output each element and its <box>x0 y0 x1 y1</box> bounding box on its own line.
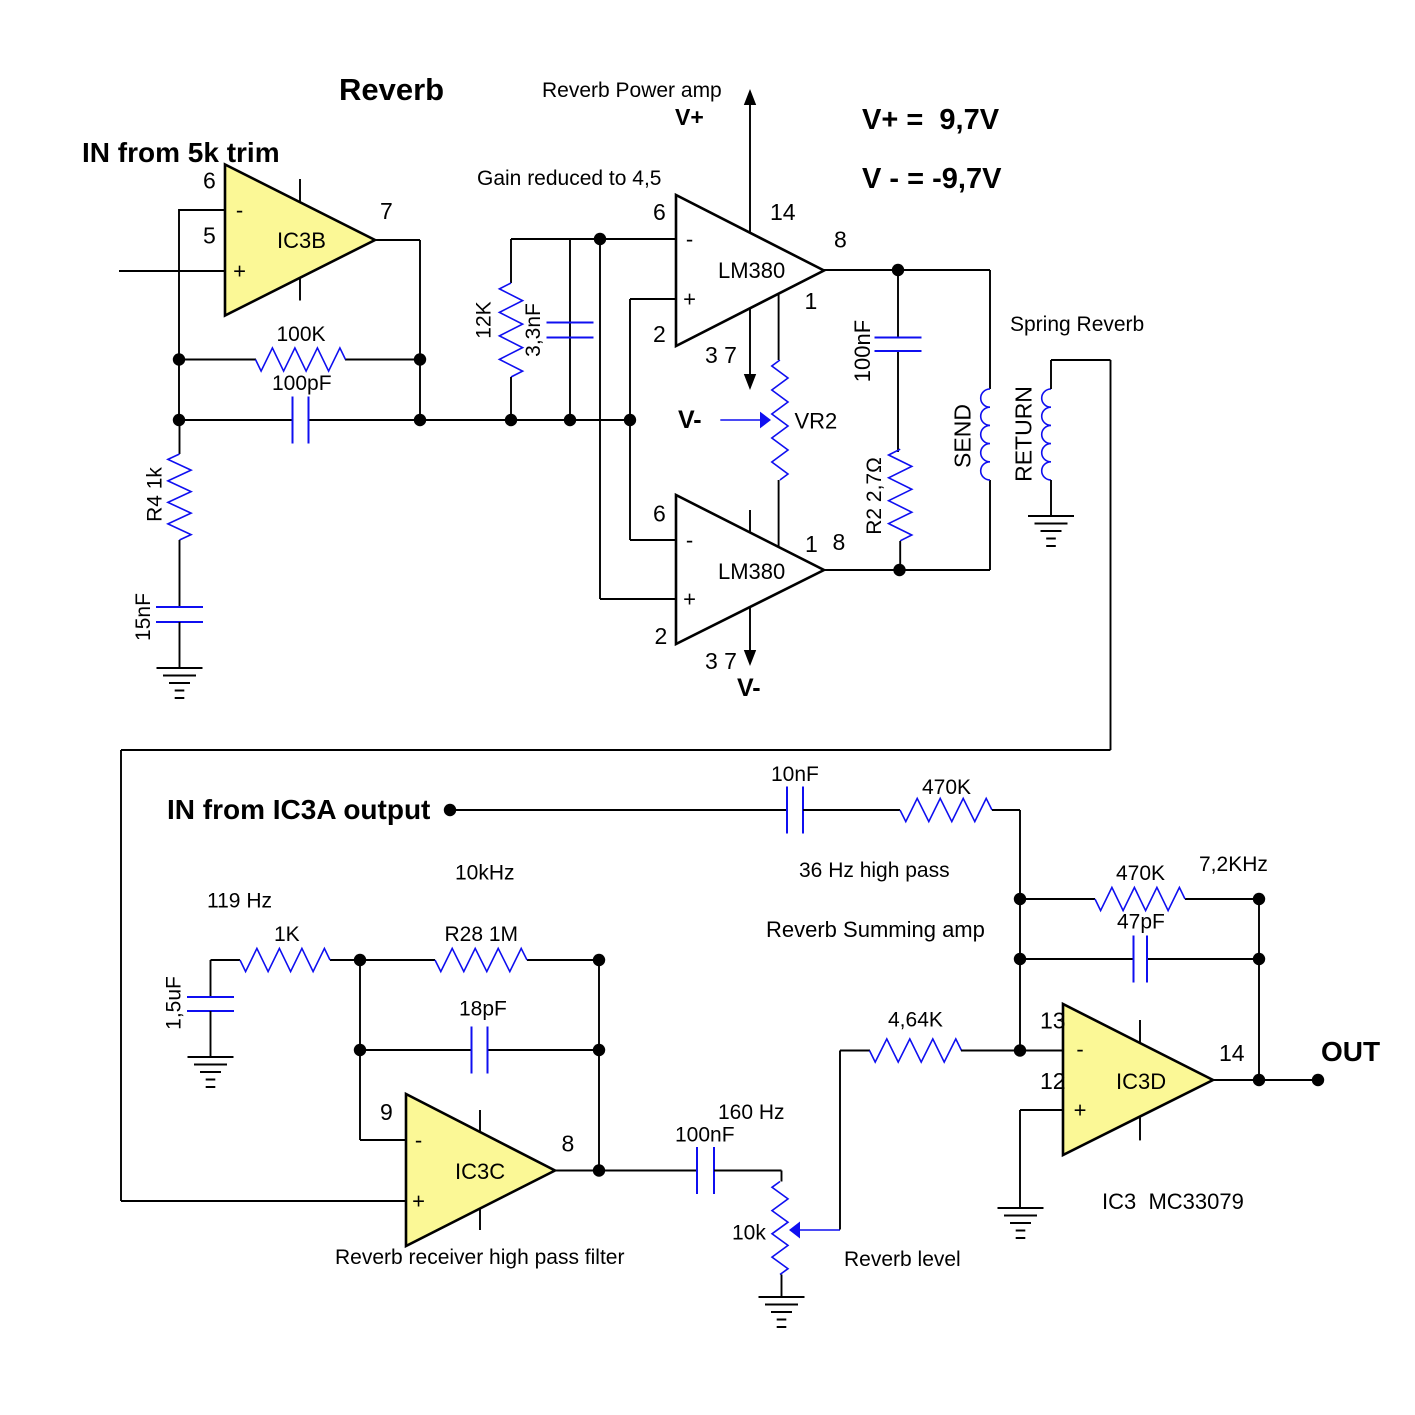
node junction dots bottom <box>354 893 1324 1177</box>
svg-text:18pF: 18pF <box>459 998 507 1021</box>
wire 100pF bus row <box>179 419 630 421</box>
V- power arrow lower <box>744 607 756 667</box>
svg-text:8: 8 <box>833 529 846 555</box>
IC3C pin numbers <box>380 1099 574 1157</box>
op-amp IC3B <box>225 165 375 316</box>
svg-text:100pF: 100pF <box>272 372 332 395</box>
svg-text:10nF: 10nF <box>771 763 819 786</box>
V- power arrow upper <box>744 309 756 391</box>
svg-text:V - = -9,7V: V - = -9,7V <box>862 163 1002 195</box>
svg-text:VR2: VR2 <box>795 409 838 434</box>
wire RETURN to ground <box>1050 480 1052 516</box>
svg-text:470K: 470K <box>1116 862 1165 885</box>
svg-text:LM380: LM380 <box>718 559 785 584</box>
wire 15nF to ground <box>179 622 181 668</box>
ground under 15nF <box>157 668 203 698</box>
wire LM380-2 output row <box>824 569 990 571</box>
svg-text:V+ = 9,7V: V+ = 9,7V <box>862 104 1000 136</box>
svg-text:4,64K: 4,64K <box>888 1009 943 1032</box>
node junction dots top <box>173 233 906 576</box>
svg-text:3 7: 3 7 <box>705 342 737 368</box>
wire IC3B noninverting input <box>119 270 225 272</box>
resistor R2 2,7ohm <box>889 449 912 541</box>
svg-text:Reverb level: Reverb level <box>844 1248 961 1271</box>
wire 12K top <box>510 239 512 283</box>
wire long horizontal <box>121 749 1111 751</box>
wire R4 top <box>179 420 181 454</box>
svg-text:IC3 MC33079: IC3 MC33079 <box>1102 1189 1244 1214</box>
svg-text:100nF: 100nF <box>675 1124 735 1147</box>
capacitor 100nF reverb <box>697 1147 714 1194</box>
svg-text:LM380: LM380 <box>718 258 785 283</box>
svg-text:6: 6 <box>653 501 666 527</box>
svg-text:12: 12 <box>1040 1068 1066 1094</box>
wire 100nF to 10k <box>714 1171 782 1182</box>
svg-text:-: - <box>415 1127 422 1152</box>
resistor R4 1k <box>168 454 191 540</box>
svg-text:IN from 5k trim: IN from 5k trim <box>82 137 280 168</box>
ground under IC3D <box>998 1208 1044 1238</box>
V+ power arrow <box>744 89 756 233</box>
svg-text:+: + <box>683 587 696 612</box>
wire SEND column <box>989 270 991 570</box>
wire 3,3nF stubs <box>569 239 571 420</box>
wire wiper to 4,64K <box>840 1051 870 1230</box>
capacitor 15nF <box>156 607 203 622</box>
svg-text:7,2KHz: 7,2KHz <box>1199 853 1268 876</box>
wire R2 bottom <box>899 541 901 570</box>
svg-text:+: + <box>683 287 696 312</box>
wire 1,5uF top <box>210 960 212 997</box>
resistor 12K <box>499 283 522 377</box>
svg-text:470K: 470K <box>922 776 971 799</box>
svg-text:5: 5 <box>203 223 216 249</box>
wire left vertical to IC3C noninverting <box>121 750 406 1201</box>
svg-text:6: 6 <box>653 199 666 225</box>
svg-text:1K: 1K <box>274 923 300 946</box>
svg-text:-: - <box>1076 1036 1083 1061</box>
resistor 100K <box>256 348 346 371</box>
wire 10nF to 470K <box>803 809 900 811</box>
op-amp IC3D <box>1063 1004 1213 1155</box>
wire 470K to corner <box>992 810 1020 1051</box>
svg-text:IC3C: IC3C <box>455 1159 505 1184</box>
wire left vertical to IC3C inverting <box>360 960 406 1140</box>
wire 100K row <box>179 359 420 361</box>
svg-text:IN from IC3A output: IN from IC3A output <box>167 794 430 825</box>
svg-text:+: + <box>412 1189 425 1214</box>
wire 1K row <box>211 959 600 961</box>
capacitor 3,3nF <box>547 323 594 338</box>
svg-text:Reverb: Reverb <box>339 72 444 107</box>
capacitor 18pF <box>472 1027 488 1074</box>
node IN from IC3A <box>444 804 456 816</box>
svg-text:15nF: 15nF <box>132 593 155 641</box>
svg-text:V+: V+ <box>675 104 704 130</box>
wire IC3B inverting input <box>179 209 225 211</box>
resistor R28 1M <box>435 948 527 971</box>
svg-text:2: 2 <box>655 623 668 649</box>
svg-text:SEND: SEND <box>950 404 976 468</box>
IC3D pin numbers <box>1040 1008 1245 1095</box>
wire R4 to 15nF <box>179 540 181 607</box>
svg-text:+: + <box>1074 1098 1087 1123</box>
svg-text:7: 7 <box>380 198 393 224</box>
svg-text:IC3D: IC3D <box>1116 1069 1166 1094</box>
svg-text:14: 14 <box>1219 1040 1245 1066</box>
svg-text:2: 2 <box>653 321 666 347</box>
svg-text:6: 6 <box>203 168 216 194</box>
svg-text:8: 8 <box>562 1131 575 1157</box>
wire IC3D output <box>1213 1079 1318 1081</box>
wire IC3C output row <box>555 1170 697 1172</box>
ground under 1,5uF <box>188 1057 234 1087</box>
svg-text:R28 1M: R28 1M <box>445 923 519 946</box>
svg-text:14: 14 <box>770 199 796 225</box>
svg-text:IC3B: IC3B <box>277 228 326 253</box>
svg-text:119 Hz: 119 Hz <box>207 890 272 913</box>
wire node to LM380-2 noninverting <box>600 239 676 599</box>
svg-text:R2 2,7Ω: R2 2,7Ω <box>863 457 886 535</box>
svg-text:RETURN: RETURN <box>1011 386 1037 482</box>
svg-text:Reverb receiver high pass filt: Reverb receiver high pass filter <box>335 1246 624 1269</box>
wire IC3D noninverting <box>1020 1110 1063 1208</box>
capacitor 1,5uF <box>187 997 234 1011</box>
svg-text:-: - <box>686 527 693 552</box>
svg-text:R4 1k: R4 1k <box>143 467 166 522</box>
wire feedback right vertical <box>1258 899 1260 1080</box>
wire 12K bottom <box>510 377 512 420</box>
wire 10k to ground <box>781 1275 783 1298</box>
IC3B pin numbers <box>203 168 393 249</box>
svg-text:10k: 10k <box>732 1222 766 1245</box>
svg-text:36 Hz high pass: 36 Hz high pass <box>799 859 950 882</box>
resistor 470K input <box>900 798 992 821</box>
LM380 lower pin numbers <box>653 501 845 675</box>
VR2 wiper arrow <box>720 412 771 429</box>
op-amp IC3C <box>406 1094 555 1246</box>
wire RETURN top <box>1051 360 1111 389</box>
svg-text:-: - <box>236 197 243 222</box>
svg-text:3,3nF: 3,3nF <box>522 303 545 357</box>
svg-text:1: 1 <box>805 531 818 557</box>
svg-text:13: 13 <box>1040 1008 1066 1034</box>
svg-text:100nF: 100nF <box>850 320 875 382</box>
svg-text:160 Hz: 160 Hz <box>718 1101 785 1124</box>
capacitor 47pF <box>1134 936 1148 983</box>
svg-text:10kHz: 10kHz <box>455 862 515 885</box>
svg-text:12K: 12K <box>473 301 496 338</box>
wire VR2 to LM380-2 pin1 <box>778 480 780 548</box>
svg-text:V-: V- <box>737 674 761 702</box>
op-amp LM380 upper <box>676 195 824 346</box>
inductor RETURN <box>1042 389 1051 480</box>
potentiometer 10k <box>772 1182 788 1275</box>
resistor 1K <box>240 948 330 971</box>
wire right vertical to IC3C output <box>598 960 600 1171</box>
svg-text:1,5uF: 1,5uF <box>162 976 185 1030</box>
wire 18pF row <box>360 1049 599 1051</box>
LM380 upper pin numbers <box>653 199 847 368</box>
resistor 4,64K <box>870 1039 962 1062</box>
ground under 10k <box>759 1297 805 1327</box>
resistor 470K feedback <box>1095 887 1185 910</box>
svg-text:47pF: 47pF <box>1117 911 1165 934</box>
svg-text:Reverb Power amp: Reverb Power amp <box>542 79 722 102</box>
svg-text:3 7: 3 7 <box>705 648 737 674</box>
wire LM380-1 output row <box>824 269 990 271</box>
wire 47pF row <box>1020 958 1259 960</box>
svg-text:1: 1 <box>805 288 818 314</box>
svg-text:OUT: OUT <box>1321 1036 1380 1067</box>
op-amp LM380 lower <box>676 495 824 644</box>
wire top row to LM380 inverting <box>511 238 676 240</box>
wire 470K feedback row <box>1020 898 1259 900</box>
potentiometer VR2 <box>772 360 788 480</box>
capacitor 10nF <box>787 787 803 834</box>
ground under RETURN <box>1028 516 1074 546</box>
wire LM380-1 pin1 to VR2 <box>778 293 780 360</box>
svg-text:Reverb Summing amp: Reverb Summing amp <box>766 917 985 942</box>
svg-text:+: + <box>233 259 246 284</box>
10k wiper arrow <box>789 1222 840 1239</box>
inductor SEND <box>981 389 990 480</box>
wire IC3A input row <box>450 809 787 811</box>
wire bus to LM380-1 noninverting and LM380-2 inverting <box>630 299 676 540</box>
wire 100nF top stub <box>897 270 899 452</box>
svg-text:8: 8 <box>834 227 847 253</box>
svg-text:Spring Reverb: Spring Reverb <box>1010 313 1144 336</box>
svg-text:9: 9 <box>380 1099 393 1125</box>
svg-text:-: - <box>686 226 693 251</box>
capacitor 100pF <box>293 397 309 444</box>
wire 1,5uF to ground <box>210 1011 212 1057</box>
capacitor 100nF power <box>875 338 922 352</box>
wire IC3B output <box>375 240 420 420</box>
svg-text:V-: V- <box>678 406 702 434</box>
wire feedback left vertical <box>178 209 180 420</box>
svg-text:100K: 100K <box>277 323 326 346</box>
wire 4,64K to IC3D inverting <box>961 1050 1063 1052</box>
svg-text:Gain reduced to 4,5: Gain reduced to 4,5 <box>477 167 661 190</box>
wire right vertical to lower section <box>1110 360 1112 750</box>
